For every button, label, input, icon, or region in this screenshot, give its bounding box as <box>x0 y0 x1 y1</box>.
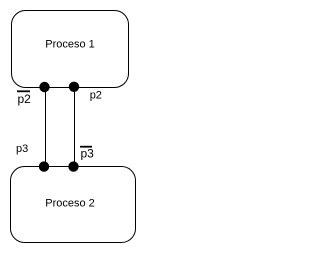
wire left p2-p3 <box>45 87 47 167</box>
svg-text:p3: p3 <box>16 143 28 155</box>
node dot top-left (p2 bar) <box>39 82 49 92</box>
label p2 bar (overlined) <box>17 91 31 106</box>
node dot top-right (p2) <box>69 82 79 92</box>
svg-text:p3: p3 <box>81 147 95 161</box>
process box Proceso 2 <box>11 167 136 243</box>
wire right p2-p3 <box>74 87 76 167</box>
svg-text:p2: p2 <box>90 89 102 101</box>
node dot bottom-left (p3) <box>39 161 49 171</box>
process box Proceso 1 <box>12 11 129 88</box>
svg-text:p2: p2 <box>18 92 32 106</box>
node dot bottom-right (p3 bar) <box>68 161 78 171</box>
svg-text:Proceso 1: Proceso 1 <box>45 39 95 51</box>
label p3 bar (overlined) <box>80 147 94 161</box>
svg-text:Proceso 2: Proceso 2 <box>45 198 95 210</box>
